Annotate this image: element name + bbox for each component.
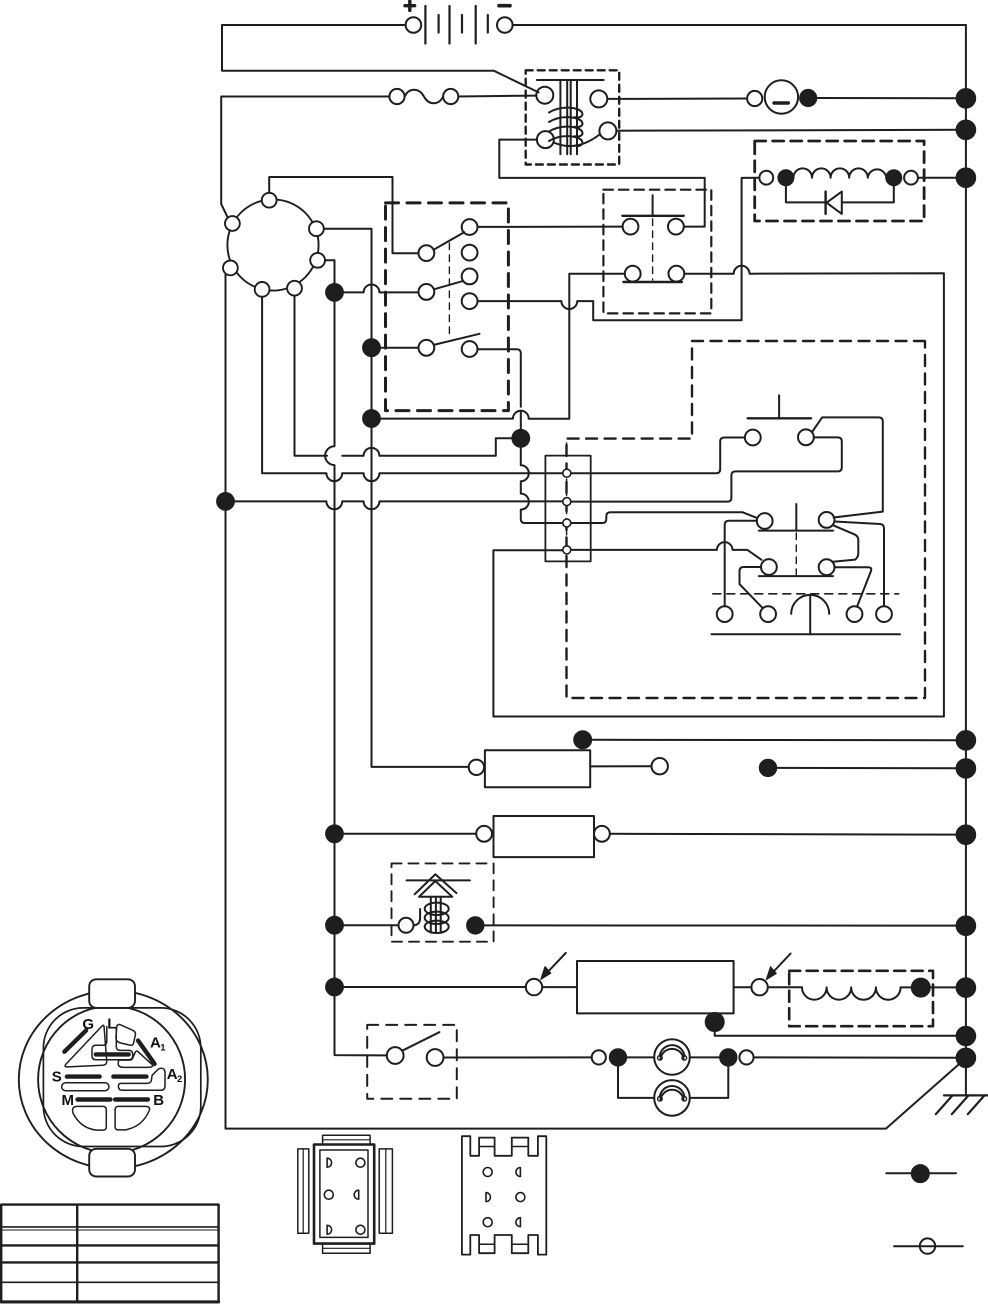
clutch coil winding — [793, 168, 886, 177]
headlamp splice dot right — [720, 1049, 736, 1065]
terminal cavity L pocket — [116, 1024, 136, 1045]
seat switch lower-right contact — [819, 559, 835, 575]
connector view A left rail — [298, 1149, 309, 1233]
connector view A pin 3 — [324, 1190, 333, 1199]
open connector end (fuel row) — [652, 758, 668, 774]
interlock module inner dashed link — [448, 243, 450, 335]
spark plug outer chevron — [415, 874, 457, 894]
magneto coil winding — [802, 987, 901, 999]
wire junction to interlock row2 left contact — [343, 285, 419, 293]
ammeter M1 body — [765, 80, 798, 113]
seat switch bottom bar — [712, 633, 901, 635]
wire node A to seat switch drop (segment across pin3 drop hop) — [520, 411, 522, 430]
interlock row2 fixed contact upper — [462, 269, 478, 285]
wire interlock row3 to connector pin3 drop — [478, 349, 563, 523]
junction dot at bus (headlamp row) — [957, 1049, 976, 1068]
fuse F1 right terminal — [443, 89, 458, 104]
battery B1 plates — [425, 6, 475, 44]
magneto splice dot — [912, 979, 930, 997]
wire hourmeter to bus — [610, 833, 957, 836]
wire key L terminal to interlock row1 left — [269, 177, 418, 253]
wire clutch feed from interlock row2 — [478, 178, 759, 320]
wire middle-left contact loop to bottom contact 1 — [725, 521, 757, 606]
brake/clutch pedal switch dashed enclosure — [603, 190, 711, 314]
svg-text:S: S — [52, 1069, 62, 1086]
interlock row2 fixed contact lower — [462, 293, 478, 309]
wire solenoid to ammeter — [607, 98, 747, 100]
connector J1 pin 3 — [563, 519, 571, 527]
junction dot starter wire at bus — [957, 121, 976, 140]
solenoid K1 dashed enclosure — [526, 70, 620, 164]
seat switch bottom contact 1 — [717, 606, 733, 622]
interlock row1 blade — [434, 232, 465, 249]
key face terminal bar M-left — [78, 1097, 111, 1101]
headlamp 2 body — [654, 1080, 690, 1116]
battery B1 minus sign — [499, 4, 510, 8]
solenoid K1 terminal to ammeter — [590, 90, 607, 107]
solenoid K1 starter terminal lower right — [599, 122, 616, 139]
key switch terminal L (top) — [262, 193, 277, 208]
wire junction to interlock row3 left contact — [380, 347, 419, 349]
ignition module right connector — [751, 979, 767, 995]
wire key B terminal to connector pin1 and seat switch top-left — [262, 297, 744, 481]
pedal switch lower-left contact — [625, 266, 641, 282]
spark plug connector — [399, 918, 414, 933]
connector view A top flange — [323, 1135, 371, 1144]
connector view A bottom flange — [323, 1244, 371, 1254]
seat switch bottom contact 4 — [876, 606, 892, 622]
pedal switch plunger stub — [652, 195, 654, 215]
wire spark row to bus — [484, 924, 957, 926]
battery B1 positive terminal — [406, 17, 422, 33]
magneto coil dashed enclosure — [789, 971, 933, 1026]
legend connector symbol line — [894, 1245, 963, 1247]
spark plug inner triangle — [419, 881, 452, 897]
seat switch top-left contact — [745, 430, 761, 446]
connector J1 pin 2 — [563, 498, 571, 506]
light switch left contact — [387, 1047, 404, 1064]
wire splice to headlamp 1 — [626, 1056, 654, 1058]
key switch terminal S (bottom-left) — [255, 282, 270, 297]
seat switch pushbutton stub — [778, 395, 780, 418]
interlock row2 blade — [434, 281, 463, 289]
splice dot feed wire row (fuel solenoid) — [574, 731, 591, 748]
wire pedal lower-left to seat circuit (down left) — [380, 274, 625, 419]
connector J1 pin 4 — [563, 546, 571, 554]
terminal cavity bottom-left pie — [73, 1106, 107, 1130]
fuse F1 element — [405, 90, 444, 104]
wiring chart table frame — [1, 1205, 218, 1303]
seat switch middle-right contact — [819, 512, 835, 528]
terminal cavity slot lower-left — [62, 1083, 109, 1091]
wire top-right contact to middle-right contact — [812, 417, 883, 517]
seat switch pushbutton bar — [748, 417, 811, 419]
clutch connector right — [904, 171, 918, 185]
spark plug dashed enclosure — [392, 863, 494, 941]
wire middle-right contact zigzag to lower-right contact — [833, 525, 858, 562]
electric clutch dashed enclosure — [755, 141, 924, 221]
wire key A2 terminal down (lighting feed) — [325, 260, 387, 1055]
connector view A pin 6 — [356, 1225, 365, 1234]
wire battery- to right ground bus — [513, 24, 966, 26]
wire ground-run branch to connector pin2 and seat switch top-right — [234, 437, 842, 509]
seat switch lower-left contact — [761, 559, 777, 575]
ammeter M1 splice dot — [800, 90, 816, 106]
light switch right contact — [427, 1049, 444, 1066]
clutch connector left — [759, 171, 773, 185]
key switch face bottom tab — [89, 1149, 135, 1177]
solenoid K1 frame bar — [537, 79, 604, 81]
headlamp 2 filament — [660, 1086, 685, 1097]
interlock row3 movable contact — [419, 340, 435, 356]
seat switch dome actuator — [791, 595, 829, 614]
ammeter M1 connector — [747, 91, 762, 106]
connector view B pin 6 (D) — [516, 1218, 521, 1227]
interlock row1 fixed contact upper — [462, 219, 478, 235]
legend connector symbol circle — [920, 1238, 935, 1253]
svg-text:G: G — [82, 1016, 94, 1033]
seat switch middle-left contact — [757, 513, 773, 529]
solenoid K1 core — [560, 81, 577, 154]
interlock row2 movable contact — [419, 284, 435, 300]
connector view A right rail — [379, 1149, 392, 1233]
seat switch separator dashed line — [713, 593, 899, 595]
junction dot at bus (accessory row) — [957, 759, 976, 778]
wire key A1 terminal down (accessory feed) — [324, 229, 469, 767]
junction dot clutch wire at bus — [957, 168, 976, 187]
junction dot at bus (magneto row) — [957, 978, 976, 997]
key face terminal bar S-left — [67, 1074, 100, 1078]
junction dot at bus (module kill wire) — [957, 1027, 976, 1046]
interlock row1 movable contact — [419, 245, 435, 261]
junction dot at bus (hourmeter row) — [957, 825, 976, 844]
spark plug top strap — [407, 879, 470, 881]
terminal cavity right boot — [118, 1051, 152, 1067]
junction dot at bus (spark row) — [957, 916, 976, 935]
key face terminal bar B-right — [115, 1097, 148, 1101]
svg-text:2: 2 — [177, 1074, 182, 1085]
wire fuel shutoff to open connector — [590, 765, 651, 767]
headlamp harness connector — [592, 1050, 606, 1064]
wire light switch to headlamps — [444, 1056, 592, 1058]
connector J1 pin index dashed line — [566, 443, 568, 561]
wire solenoid starter output to bus — [616, 129, 966, 132]
pedal switch lower-right contact — [669, 266, 685, 282]
connector view B keyway lines — [479, 1147, 528, 1245]
wire splice to bus (fuel solenoid row) — [591, 739, 956, 741]
junction dot A2 feed to interlock row2 — [326, 284, 343, 301]
wire right connector to magneto coil — [768, 986, 802, 988]
fuse F1 left terminal — [389, 89, 404, 104]
solenoid K1 contact blade — [554, 135, 600, 147]
wire junction to ignition module — [343, 986, 526, 988]
junction dot ammeter wire at bus — [957, 89, 976, 108]
ammeter M1 minus mark — [774, 101, 788, 104]
ignition module left connector — [526, 979, 542, 995]
wire headlamps to bus ground — [754, 1056, 957, 1058]
terminal cavity slot lower-right with A2 flag — [118, 1068, 165, 1090]
pedal switch upper-left contact — [623, 219, 639, 235]
hourmeter right connector — [594, 826, 610, 842]
solenoid K1 coil terminal lower left — [537, 131, 554, 148]
seat switch middle plunger stub — [795, 504, 797, 530]
seat switch bottom contact 2 — [760, 606, 776, 622]
ignition module right pointer arrow — [771, 954, 790, 975]
svg-text:L: L — [107, 1015, 116, 1032]
headlamp connector right — [739, 1050, 753, 1064]
connector view A inner body — [320, 1150, 368, 1237]
fuel shutoff module body — [485, 750, 590, 787]
key switch face outer ring — [19, 991, 208, 1169]
wire battery+ to solenoid battery stud — [222, 25, 539, 92]
pedal switch upper bar — [622, 215, 683, 217]
chassis ground symbol — [944, 1094, 988, 1096]
connector view A pin 1 (D) — [327, 1158, 332, 1167]
splice dot under ignition module — [706, 1013, 724, 1031]
svg-text:B: B — [153, 1092, 164, 1109]
connector J1 pin 1 — [563, 469, 571, 477]
connector view B outline — [462, 1136, 546, 1254]
key face terminal bar S-right — [113, 1074, 146, 1078]
junction dot node A on accessory drop — [363, 410, 380, 427]
wire key M terminal to chassis ground run — [226, 274, 964, 1128]
seat switch top-right contact — [798, 429, 814, 445]
junction dot ignition row at A2 drop — [326, 979, 343, 996]
clutch flyback diode D1 branch — [786, 185, 894, 202]
wire interlock row1 to pedal switch upper-left — [478, 226, 623, 228]
hourmeter left connector — [476, 826, 492, 842]
terminal cavity bottom-right pie — [115, 1106, 150, 1130]
connector view B pin 5 — [483, 1218, 492, 1227]
seat switch middle bar — [759, 530, 833, 532]
connector view A pin 4 (D) — [354, 1190, 359, 1199]
junction dot hourmeter row at A2 drop — [326, 825, 343, 842]
pedal switch lower bar — [623, 281, 682, 283]
interlock row1 fixed contact lower — [462, 245, 478, 261]
harness connector J1 body — [545, 456, 590, 562]
key switch terminal M (left) — [223, 261, 238, 276]
key face terminal bar A1 — [138, 1041, 155, 1064]
key face terminal bar G — [64, 1030, 86, 1051]
wire lower-right contact to bottom contact 3 — [835, 567, 872, 607]
fuel shutoff left connector — [469, 760, 484, 775]
key switch terminal B (bottom-right) — [287, 281, 302, 296]
terminal cavity top-left triangle — [65, 1025, 107, 1067]
headlamp splice dot left — [610, 1049, 626, 1065]
wire headlamp 2 parallel branch — [618, 1066, 728, 1098]
ignition module left pointer arrow — [546, 953, 566, 974]
connector view B pin 4 — [516, 1193, 525, 1202]
key switch face squircle housing — [43, 1008, 200, 1147]
pedal switch plunger dashed stem — [652, 219, 654, 280]
legend splice symbol line — [886, 1172, 956, 1174]
connector view A pin 5 (D) — [327, 1225, 332, 1234]
key switch terminal A1 (right-top) — [309, 221, 324, 236]
connector view A pin 2 — [356, 1158, 365, 1167]
wire lower-left contact to bottom contact 2 — [740, 567, 763, 608]
junction dot accessory feed to interlock row3 — [363, 339, 380, 356]
table column divider — [76, 1205, 78, 1303]
junction dot ground run to harness — [217, 493, 234, 510]
wire module splice to bus — [715, 1031, 957, 1036]
terminal cavity centre channel — [92, 1027, 133, 1060]
connector view A outer body — [314, 1145, 374, 1244]
solenoid K1 terminal battery stud — [536, 87, 553, 104]
connector view B pin 2 (D) — [516, 1168, 521, 1177]
light switch blade — [403, 1032, 439, 1050]
seat switch dome stem — [809, 596, 811, 634]
clutch splice dot left — [778, 170, 793, 185]
pedal switch upper-right contact — [668, 219, 684, 235]
hourmeter module body — [494, 816, 595, 857]
seat switch bottom contact 3 — [847, 606, 863, 622]
spark plug core — [431, 897, 441, 933]
ignition module body — [577, 961, 734, 1013]
spark coil winding — [425, 903, 449, 915]
wire pedal lower-right to connector pin4 loop — [493, 266, 944, 717]
wire headlamp 1 to splice right — [690, 1056, 720, 1058]
splice dot accessory row — [760, 760, 776, 776]
connector view B pin 1 — [483, 1168, 492, 1177]
wire junction to spark plug — [343, 924, 399, 926]
diode D1 cathode bar — [824, 192, 826, 214]
wire fuse to solenoid coil terminal — [458, 95, 536, 98]
wire ammeter to bus — [816, 97, 966, 99]
large seat/PTO switch dashed enclosure (notched) — [567, 341, 926, 698]
headlamp 1 body — [654, 1039, 690, 1075]
key switch S1 body circle — [227, 199, 318, 290]
table row rules — [1, 1244, 218, 1246]
wire pin3 to seat switch middle-left contact — [571, 512, 757, 523]
seat switch plunger dashed stem — [795, 533, 797, 576]
svg-text:M: M — [62, 1092, 75, 1109]
interlock row3 blade — [434, 334, 480, 345]
wire pin4 to seat switch lower-left contact — [571, 542, 762, 560]
key face terminal bar centre — [96, 1052, 129, 1056]
wire junction to hourmeter — [343, 833, 476, 835]
legend splice symbol dot — [912, 1165, 929, 1182]
connector view B pin 3 (D) — [486, 1193, 491, 1202]
seat switch lower bar — [759, 575, 833, 577]
clutch splice dot right — [886, 170, 901, 185]
key switch face top tab — [89, 979, 135, 1008]
wire magneto to bus — [901, 986, 957, 988]
wire middle-right contact to bottom contact 4 — [835, 522, 885, 607]
spark coil lead — [414, 909, 421, 925]
light switch dashed enclosure — [367, 1025, 457, 1099]
solenoid K1 coil winding — [549, 108, 582, 118]
wire right ground bus — [965, 25, 967, 1095]
key switch face inner circle — [38, 1006, 185, 1153]
wire clutch to bus — [918, 177, 957, 179]
interlock switch module dashed enclosure — [386, 203, 509, 411]
wire splice to bus (accessory row) — [776, 767, 956, 769]
spark splice dot — [467, 917, 483, 933]
headlamp 1 filament — [660, 1045, 685, 1056]
battery B1 plus sign — [405, 1, 415, 10]
wire solenoid coil- down to interlock switches — [499, 140, 704, 227]
table header double rule — [1, 1226, 218, 1228]
diode D1 triangle — [827, 192, 842, 214]
junction dot spark row at A2 drop — [326, 917, 343, 934]
wire fuse feed from key switch B terminal — [221, 97, 389, 218]
key switch terminal G (top-left) — [225, 216, 240, 231]
interlock row3 fixed contact — [462, 341, 478, 357]
junction dot at bus (fuel solenoid row) — [957, 731, 976, 750]
wire key S terminal to bus1 and connector pin3 riser — [295, 296, 513, 456]
junction dot C pin3 riser — [512, 430, 529, 447]
svg-text:1: 1 — [160, 1043, 166, 1054]
key switch terminal A2 (right) — [310, 253, 325, 268]
wire module body to right connector — [734, 986, 752, 988]
battery B1 negative terminal — [497, 17, 513, 33]
wire module left connector to body — [542, 986, 577, 988]
